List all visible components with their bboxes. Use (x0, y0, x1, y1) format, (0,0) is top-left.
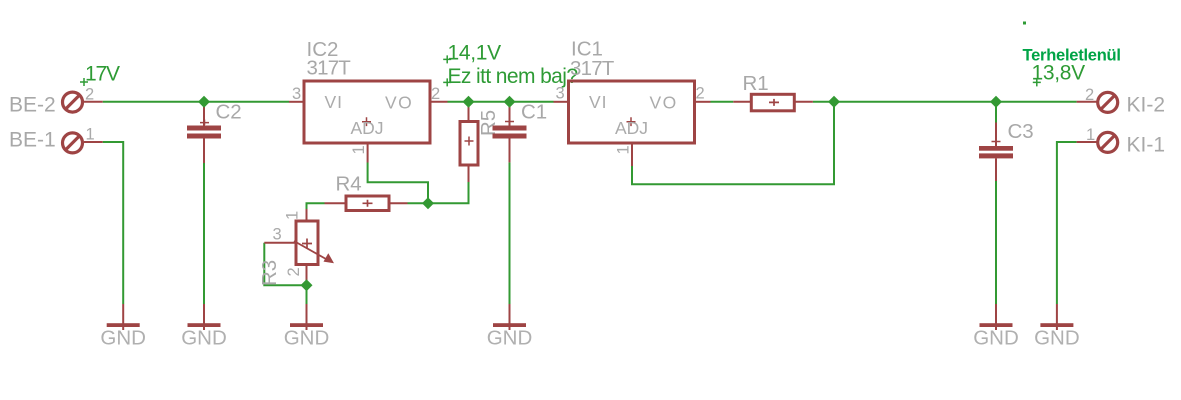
svg-text:1: 1 (615, 145, 633, 154)
wire C2 to GND (203, 163, 205, 304)
svg-text:GND: GND (284, 326, 330, 349)
wire KI-1 to GND (1057, 142, 1077, 304)
junction at R5 top (463, 96, 475, 108)
resistor R4 (325, 196, 408, 211)
terminal BE-2 (63, 92, 103, 112)
origin cross of note (443, 78, 451, 86)
svg-text:ADJ: ADJ (351, 118, 384, 138)
svg-text:R5: R5 (477, 110, 500, 136)
op-amp regulator IC1 (554, 81, 711, 166)
svg-text:17V: 17V (85, 63, 120, 86)
svg-text:ADJ: ADJ (615, 118, 648, 138)
junction at C1 (504, 96, 516, 108)
stray green dot (1023, 22, 1026, 25)
junction at C2 (198, 96, 210, 108)
svg-text:KI-2: KI-2 (1127, 94, 1166, 117)
svg-text:VI: VI (589, 92, 608, 112)
op-amp regulator IC2 (289, 81, 448, 163)
potentiometer R3 (264, 209, 318, 285)
svg-text:3: 3 (556, 85, 565, 103)
junction at R3 pin2 (301, 279, 313, 291)
wire C3 to GND (995, 181, 997, 304)
svg-text:C2: C2 (216, 101, 242, 124)
wire R4 to R3 pin1 (307, 203, 325, 212)
svg-text:3: 3 (273, 226, 282, 244)
wire R5 bottom to R4 node (408, 182, 469, 203)
svg-text:C1: C1 (521, 101, 547, 124)
origin cross of 13,8V (1033, 78, 1041, 86)
svg-text:2: 2 (1085, 86, 1094, 104)
svg-text:2: 2 (285, 267, 303, 276)
svg-text:2: 2 (431, 85, 440, 103)
junction below R1 (828, 96, 840, 108)
svg-text:317T: 317T (570, 57, 615, 80)
junction at R4 right (422, 197, 434, 209)
svg-text:1: 1 (350, 145, 368, 154)
terminal BE-1 (63, 133, 103, 153)
junction at C3 (990, 96, 1002, 108)
svg-text:R3: R3 (258, 260, 281, 286)
wire R3 pin3 loop (264, 243, 306, 285)
wire R1 to KI-2 (813, 101, 1077, 103)
wire IC1 VO to R1 (711, 101, 734, 103)
svg-text:GND: GND (1034, 326, 1080, 349)
svg-text:1: 1 (1086, 126, 1095, 144)
ground for R3 (284, 304, 330, 349)
svg-text:BE-2: BE-2 (9, 93, 56, 116)
origin cross of 14,1V (443, 55, 451, 63)
ground for C3 (973, 304, 1019, 349)
svg-text:2: 2 (696, 85, 705, 103)
svg-text:VO: VO (650, 93, 678, 113)
svg-text:GND: GND (100, 326, 146, 349)
ground for C2 (181, 304, 227, 349)
svg-text:317T: 317T (307, 57, 352, 80)
terminal KI-1 (1077, 132, 1118, 152)
svg-text:GND: GND (487, 326, 533, 349)
resistor R5 (460, 102, 478, 182)
wire IC2 ADJ loop (368, 163, 428, 204)
svg-text:14,1V: 14,1V (448, 42, 502, 65)
ground for C1 (487, 304, 533, 349)
svg-text:BE-1: BE-1 (9, 129, 56, 152)
wiper arrow of R3 (294, 241, 334, 263)
svg-text:13,8V: 13,8V (1032, 62, 1086, 85)
svg-text:3: 3 (292, 85, 301, 103)
ground for KI-1 (1034, 304, 1080, 349)
svg-text:2: 2 (85, 86, 94, 104)
wire BE-1 to GND (103, 142, 124, 304)
svg-text:VO: VO (385, 93, 413, 113)
terminal KI-2 (1077, 92, 1118, 112)
wire IC2 VO to IC1 VI (448, 101, 554, 103)
wire net to C3 (995, 102, 997, 123)
svg-text:R4: R4 (336, 173, 362, 196)
svg-text:R1: R1 (743, 72, 769, 95)
svg-text:1: 1 (86, 125, 95, 143)
svg-text:GND: GND (973, 326, 1019, 349)
origin cross of 17V (80, 78, 88, 86)
capacitor C1 (493, 102, 527, 162)
wire IC1 ADJ loop (632, 102, 834, 185)
wire R3 pin2 to GND (306, 285, 308, 304)
capacitor C3 (979, 123, 1013, 182)
svg-text:KI-1: KI-1 (1127, 133, 1166, 156)
svg-text:C3: C3 (1008, 120, 1034, 143)
wire C1 to GND (509, 162, 511, 304)
ground for BE-1 (100, 304, 146, 349)
svg-text:VI: VI (325, 92, 344, 112)
wire main net from BE-2 to IC2 VI (103, 101, 289, 103)
capacitor C2 (187, 102, 221, 163)
svg-text:GND: GND (181, 326, 227, 349)
resistor R1 (733, 94, 813, 111)
svg-text:1: 1 (284, 211, 302, 220)
